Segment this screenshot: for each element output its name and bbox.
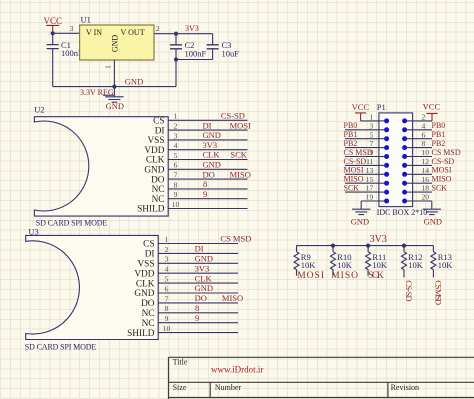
svg-text:DI: DI	[155, 126, 165, 136]
wire U3 pin 4	[158, 272, 238, 274]
svg-text:SCK: SCK	[344, 184, 360, 193]
svg-text:8: 8	[195, 303, 199, 313]
svg-text:19: 19	[366, 193, 374, 202]
svg-text:17: 17	[366, 184, 374, 193]
junction C2 top	[174, 32, 178, 36]
capacitor C3	[212, 34, 214, 45]
wire P1 pin 12	[413, 164, 432, 166]
svg-text:P1: P1	[377, 102, 386, 112]
svg-text:GND: GND	[144, 166, 164, 176]
svg-text:8: 8	[165, 304, 169, 313]
wire P1 pin 14	[413, 173, 432, 175]
svg-text:CLK: CLK	[146, 156, 165, 166]
P1 pin 16 dot	[405, 182, 413, 184]
P1 pin 1 dot	[379, 120, 387, 122]
svg-text:CLK: CLK	[136, 279, 155, 289]
P1 pin 15 dot	[379, 182, 387, 184]
wire P1 pin 16	[413, 182, 432, 184]
wire P1 pin 5	[345, 138, 379, 140]
wire U3 pin 10	[158, 332, 238, 334]
svg-text:20: 20	[422, 193, 430, 202]
svg-text:MISO: MISO	[222, 293, 243, 303]
svg-text:GND: GND	[134, 289, 154, 299]
title block frame	[169, 357, 474, 399]
svg-text:PB1: PB1	[432, 130, 446, 139]
svg-text:VDD: VDD	[134, 269, 154, 279]
svg-text:3: 3	[174, 131, 178, 140]
P1 pin 5 dot	[379, 138, 387, 140]
svg-text:10: 10	[422, 148, 430, 157]
svg-text:15: 15	[366, 175, 374, 184]
svg-text:7: 7	[370, 139, 374, 148]
svg-text:CS MSD: CS MSD	[434, 280, 444, 305]
resistor R10	[332, 246, 334, 252]
svg-text:10K: 10K	[408, 260, 424, 270]
P1 pin 19 dot	[379, 200, 387, 202]
svg-text:NC: NC	[142, 319, 155, 329]
svg-text:GND: GND	[203, 160, 221, 170]
junction C2 bottom	[174, 57, 178, 61]
svg-text:MOSI: MOSI	[432, 166, 452, 175]
wire P1 pin 6	[413, 138, 432, 140]
svg-text:PB2: PB2	[344, 139, 358, 148]
svg-text:8: 8	[203, 179, 207, 189]
P1 pin 2 dot	[405, 120, 413, 122]
wire U3 pin 1	[158, 243, 238, 245]
svg-text:SD CARD SPI MODE: SD CARD SPI MODE	[25, 343, 97, 352]
capacitor C1	[52, 33, 54, 44]
svg-text:SCK: SCK	[432, 184, 448, 193]
svg-text:CS-SD: CS-SD	[344, 157, 367, 166]
P1 pin 12 dot	[405, 164, 413, 166]
P1 pin 20 dot	[405, 200, 413, 202]
svg-text:16: 16	[422, 175, 430, 184]
svg-text:DI: DI	[145, 250, 155, 260]
svg-text:3: 3	[370, 121, 374, 130]
wire ground run	[53, 86, 176, 88]
svg-text:NC: NC	[142, 309, 155, 319]
wire P1 pin 17	[345, 191, 379, 193]
svg-text:3V3: 3V3	[370, 234, 387, 245]
wire P1 pin20 to ground	[413, 200, 432, 202]
svg-text:1: 1	[370, 113, 374, 122]
wire U3 pin 5	[158, 282, 238, 284]
svg-text:PB0: PB0	[432, 121, 446, 130]
P1 pin 6 dot	[405, 138, 413, 140]
svg-text:CS MSD: CS MSD	[432, 148, 461, 157]
P1 pin 7 dot	[379, 147, 387, 149]
wire U3 pin 9	[158, 322, 238, 324]
wire P1 pin 7	[345, 147, 379, 149]
wire P1 pin 13	[345, 173, 379, 175]
svg-text:VSS: VSS	[137, 260, 154, 270]
wire U2 pin 1	[168, 119, 247, 121]
svg-text:4: 4	[422, 121, 426, 130]
svg-text:CS: CS	[143, 240, 154, 250]
svg-text:4: 4	[165, 265, 169, 274]
resistor R11	[367, 246, 369, 252]
svg-text:GND: GND	[195, 254, 213, 264]
svg-text:100nF: 100nF	[185, 49, 207, 59]
svg-text:VCC: VCC	[44, 16, 63, 26]
svg-text:7: 7	[174, 171, 178, 180]
wire U2 pin 4	[168, 149, 247, 151]
wire P1 pin 11	[345, 164, 379, 166]
resistor R12	[403, 246, 405, 252]
P1 pin 13 dot	[379, 173, 387, 175]
P1 pin 17 dot	[379, 191, 387, 193]
junction U1 pin1 / ground	[112, 85, 116, 89]
svg-text:Title: Title	[173, 358, 188, 367]
svg-text:6: 6	[174, 161, 178, 170]
svg-text:PB2: PB2	[432, 139, 446, 148]
svg-text:CLK: CLK	[203, 150, 221, 160]
svg-text:1: 1	[104, 65, 113, 69]
svg-text:3V3: 3V3	[195, 263, 210, 273]
svg-text:MOSI: MOSI	[230, 120, 251, 130]
svg-text:2: 2	[156, 24, 160, 33]
svg-text:10K: 10K	[438, 260, 454, 270]
wire U2 pin 5	[168, 159, 247, 161]
svg-text:9: 9	[203, 189, 207, 199]
svg-text:DO: DO	[203, 169, 215, 179]
svg-text:GND: GND	[424, 217, 442, 227]
P1 pin 18 dot	[405, 191, 413, 193]
wire P1 pin 4	[413, 129, 432, 131]
power ground (P1 pin19)	[352, 209, 370, 214]
wire VCC to U1 pin3	[53, 32, 80, 34]
svg-text:6: 6	[165, 284, 169, 293]
svg-text:9: 9	[165, 314, 169, 323]
svg-text:11: 11	[366, 157, 373, 166]
svg-text:2: 2	[422, 113, 426, 122]
svg-text:10uF: 10uF	[222, 49, 240, 59]
svg-text:MISO: MISO	[432, 175, 452, 184]
svg-text:14: 14	[422, 166, 430, 175]
svg-text:DI: DI	[195, 244, 204, 254]
P1 pin 4 dot	[405, 129, 413, 131]
svg-text:CS MSD: CS MSD	[344, 148, 373, 157]
svg-text:10K: 10K	[337, 260, 353, 270]
svg-text:U2: U2	[34, 105, 44, 115]
resistor R13	[432, 246, 434, 252]
wire 3V3 rail	[297, 245, 434, 247]
svg-text:GND: GND	[110, 35, 119, 53]
power ground symbol 3.3V REG	[113, 87, 115, 97]
P1 pin 9 dot	[379, 156, 387, 158]
svg-text:3: 3	[165, 255, 169, 264]
svg-text:Number: Number	[215, 383, 242, 392]
svg-text:GND: GND	[203, 130, 221, 140]
wire P1 pin19 to ground	[361, 200, 379, 202]
svg-text:8: 8	[422, 139, 426, 148]
wire P1 pin 9	[345, 156, 379, 158]
wire U3 pin 7	[158, 302, 238, 304]
svg-text:SHILD: SHILD	[127, 329, 155, 339]
wire U2 pin 6	[168, 168, 247, 170]
svg-text:Revision: Revision	[391, 383, 419, 392]
svg-text:GND: GND	[125, 76, 143, 86]
svg-text:3: 3	[70, 24, 74, 33]
svg-text:MISO: MISO	[230, 169, 251, 179]
svg-text:3V3: 3V3	[185, 24, 199, 33]
svg-text:MISO: MISO	[344, 175, 364, 184]
svg-text:www.iDrdot.ir: www.iDrdot.ir	[211, 365, 263, 375]
svg-text:GND: GND	[351, 217, 369, 227]
svg-text:VDD: VDD	[144, 146, 164, 156]
svg-text:8: 8	[174, 180, 178, 189]
svg-text:VCC: VCC	[352, 102, 370, 112]
svg-text:SCK: SCK	[230, 150, 247, 160]
svg-text:MISO: MISO	[331, 271, 358, 281]
P1 pin 14 dot	[405, 173, 413, 175]
svg-text:U1: U1	[81, 15, 91, 25]
junction 3V3 rail	[366, 244, 370, 248]
svg-text:7: 7	[165, 294, 169, 303]
P1 pin 11 dot	[379, 164, 387, 166]
svg-text:2: 2	[165, 245, 169, 254]
svg-text:1: 1	[165, 235, 169, 244]
wire P1 pin 8	[413, 147, 432, 149]
wire P1 pin 15	[345, 182, 379, 184]
capacitor C2	[175, 34, 177, 45]
svg-text:4: 4	[174, 141, 178, 150]
wire P1 pin 3	[345, 129, 379, 131]
svg-text:1: 1	[174, 112, 178, 121]
svg-text:Size: Size	[173, 383, 187, 392]
svg-text:13: 13	[366, 166, 374, 175]
wire U3 pin 3	[158, 262, 238, 264]
svg-text:9: 9	[174, 190, 178, 199]
svg-text:MOSI: MOSI	[297, 271, 324, 281]
svg-text:10: 10	[163, 324, 171, 333]
svg-text:SCK: SCK	[368, 271, 384, 281]
U1 pin 1 stub	[113, 60, 115, 87]
svg-text:3V3: 3V3	[203, 140, 218, 150]
svg-text:CS MSD: CS MSD	[220, 234, 251, 244]
wire U2 pin 10	[168, 208, 247, 210]
wire U2 pin 3	[168, 139, 247, 141]
P1 pin 10 dot	[405, 156, 413, 158]
svg-text:5: 5	[165, 275, 169, 284]
svg-text:GND: GND	[195, 283, 213, 293]
svg-text:DI: DI	[203, 120, 212, 130]
svg-text:MOSI: MOSI	[344, 166, 364, 175]
svg-text:DO: DO	[195, 293, 207, 303]
wire U2 pin 8	[168, 188, 247, 190]
svg-text:NC: NC	[152, 185, 165, 195]
wire U2 pin 2	[168, 129, 247, 131]
wire U3 pin 2	[158, 252, 238, 254]
wire U2 pin 9	[168, 198, 247, 200]
svg-text:9: 9	[195, 313, 199, 323]
svg-text:CS: CS	[153, 117, 164, 127]
junction 3V3 rail	[331, 244, 335, 248]
resistor R9	[296, 246, 298, 252]
wire U2 pin 7	[168, 178, 247, 180]
svg-text:10: 10	[172, 200, 180, 209]
svg-text:CS-SD: CS-SD	[221, 111, 245, 121]
svg-text:SHILD: SHILD	[137, 205, 165, 215]
svg-text:10K: 10K	[301, 260, 317, 270]
svg-text:5: 5	[370, 130, 374, 139]
svg-text:PB0: PB0	[344, 121, 358, 130]
svg-text:CLK: CLK	[195, 273, 213, 283]
wire U3 pin 6	[158, 292, 238, 294]
svg-text:GND: GND	[106, 101, 124, 111]
power ground (P1 pin20)	[423, 209, 441, 214]
svg-text:6: 6	[422, 130, 426, 139]
svg-text:DO: DO	[141, 299, 155, 309]
svg-text:SD CARD SPI MODE: SD CARD SPI MODE	[36, 218, 108, 227]
svg-text:10K: 10K	[372, 260, 388, 270]
wire P1 pin 18	[413, 191, 432, 193]
svg-text:2: 2	[174, 122, 178, 131]
svg-text:18: 18	[422, 184, 430, 193]
svg-text:V OUT: V OUT	[121, 28, 145, 37]
svg-text:IDC BOX 2*10: IDC BOX 2*10	[377, 208, 428, 217]
wire C2-C3 bottom	[176, 59, 213, 61]
svg-text:12: 12	[422, 157, 430, 166]
wire U3 pin 8	[158, 312, 238, 314]
wire P1 pin 10	[413, 156, 432, 158]
junction 3V3 rail	[402, 244, 406, 248]
svg-text:DO: DO	[151, 175, 165, 185]
svg-text:PB1: PB1	[344, 130, 358, 139]
junction VCC/C1	[51, 31, 55, 35]
svg-text:V IN: V IN	[86, 28, 102, 37]
svg-text:NC: NC	[152, 195, 165, 205]
svg-text:5: 5	[174, 151, 178, 160]
svg-text:VSS: VSS	[147, 136, 164, 146]
P1 pin 3 dot	[379, 129, 387, 131]
svg-text:CS-SD: CS-SD	[404, 280, 414, 302]
P1 pin 8 dot	[405, 147, 413, 149]
svg-text:VCC: VCC	[423, 102, 441, 112]
svg-text:CS-SD: CS-SD	[432, 157, 455, 166]
